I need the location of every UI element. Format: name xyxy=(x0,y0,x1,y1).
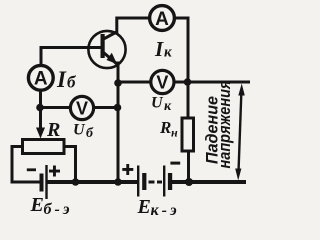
svg-text:к-э: к-э xyxy=(151,202,180,218)
battery Eb-e positive plate (tall thin) xyxy=(45,165,47,199)
junction dot R branch/bottom wire xyxy=(72,178,80,186)
label Eb-e xyxy=(30,194,73,218)
junction dot emitter/Ub wire xyxy=(114,104,122,112)
svg-text:E: E xyxy=(137,196,151,218)
battery Ek-e cell2 negative plate (short thick) xyxy=(168,173,172,190)
svg-text:б-э: б-э xyxy=(44,201,73,218)
label R xyxy=(46,119,60,141)
transistor emitter diagonal with arrow xyxy=(104,53,118,65)
wire R right end down to bottom wire xyxy=(64,147,76,183)
svg-text:A: A xyxy=(155,9,169,30)
transistor collector diagonal xyxy=(104,32,118,40)
battery Ek-e cell1 negative plate (short thick) xyxy=(142,173,146,190)
wire Uk row: emitter rail through voltmeter V2 to right rail and dimension arrow xyxy=(118,81,249,84)
label Padenie napryazheniya (vertical) xyxy=(203,81,235,169)
svg-text:V: V xyxy=(76,98,88,118)
battery Ek-e cell1 positive plate (tall thin) xyxy=(137,166,139,197)
svg-text:U: U xyxy=(151,95,164,112)
wire Ub row: A1 rail to voltmeter V1 and on to emitter rail xyxy=(41,106,119,109)
svg-text:I: I xyxy=(56,67,67,92)
junction dot Rn lead/bottom wire xyxy=(185,178,193,186)
label Ek-e xyxy=(137,196,180,219)
label minus of Eb-e xyxy=(27,168,36,171)
svg-text:U: U xyxy=(73,122,86,139)
label Rn xyxy=(159,118,178,140)
wire bottom: Eb-e plus to Ek-e plus xyxy=(48,180,138,184)
wire bottom: Ek-e minus to right end xyxy=(173,180,245,184)
label plus of Eb-e xyxy=(49,166,60,177)
junction dot emitter/Uk wire xyxy=(114,79,122,87)
wire right rail below Rn to bottom wire xyxy=(187,151,190,182)
battery Eb-e negative plate (short thick) xyxy=(40,174,44,192)
transistor VT circle xyxy=(88,31,125,68)
svg-text:R: R xyxy=(46,119,60,141)
svg-text:A: A xyxy=(34,69,48,90)
dimension arrow (voltage drop span) xyxy=(235,84,245,181)
label Ib xyxy=(56,67,77,92)
svg-text:R: R xyxy=(159,118,171,137)
junction dot A1/Ub wire xyxy=(36,104,44,112)
label plus of Ek-e xyxy=(122,164,133,175)
svg-text:н: н xyxy=(171,126,178,140)
svg-text:I: I xyxy=(154,37,164,61)
svg-text:к: к xyxy=(164,99,172,114)
svg-text:напряжения: напряжения xyxy=(215,81,234,169)
wire emitter rail (vertical) xyxy=(117,63,120,182)
svg-text:б: б xyxy=(86,126,94,141)
junction dot emitter/bottom wire xyxy=(114,178,122,186)
ammeter A2 (collector current) xyxy=(150,6,175,31)
wire base-top from ammeter A1 up and right to transistor base xyxy=(41,48,101,65)
svg-text:V: V xyxy=(156,72,168,92)
battery Ek-e dashed link xyxy=(149,181,163,184)
voltmeter V2 (Uk) xyxy=(151,70,174,93)
battery Ek-e cell2 positive plate (tall thin) xyxy=(163,166,165,197)
label minus of Ek-e xyxy=(170,162,180,165)
wire R left end to Eb-e minus terminal xyxy=(12,147,40,183)
svg-text:E: E xyxy=(30,194,44,216)
transistor base bar xyxy=(101,34,105,58)
resistor Rn box xyxy=(182,118,194,151)
wire collector top: transistor collector to ammeter A2 and right rail corner xyxy=(117,18,188,118)
svg-text:к: к xyxy=(164,45,172,61)
junction dot right rail/Uk wire xyxy=(184,78,192,86)
voltmeter V1 (Ub) xyxy=(70,96,93,119)
ammeter A1 (base current) xyxy=(28,65,53,90)
label Uk xyxy=(151,95,172,115)
potentiometer tap arrow onto R xyxy=(36,128,45,139)
label Ub xyxy=(73,122,94,142)
wire ammeter A1 down to tap arrow xyxy=(39,91,42,129)
label Ik xyxy=(154,37,172,61)
resistor R box xyxy=(23,140,65,154)
